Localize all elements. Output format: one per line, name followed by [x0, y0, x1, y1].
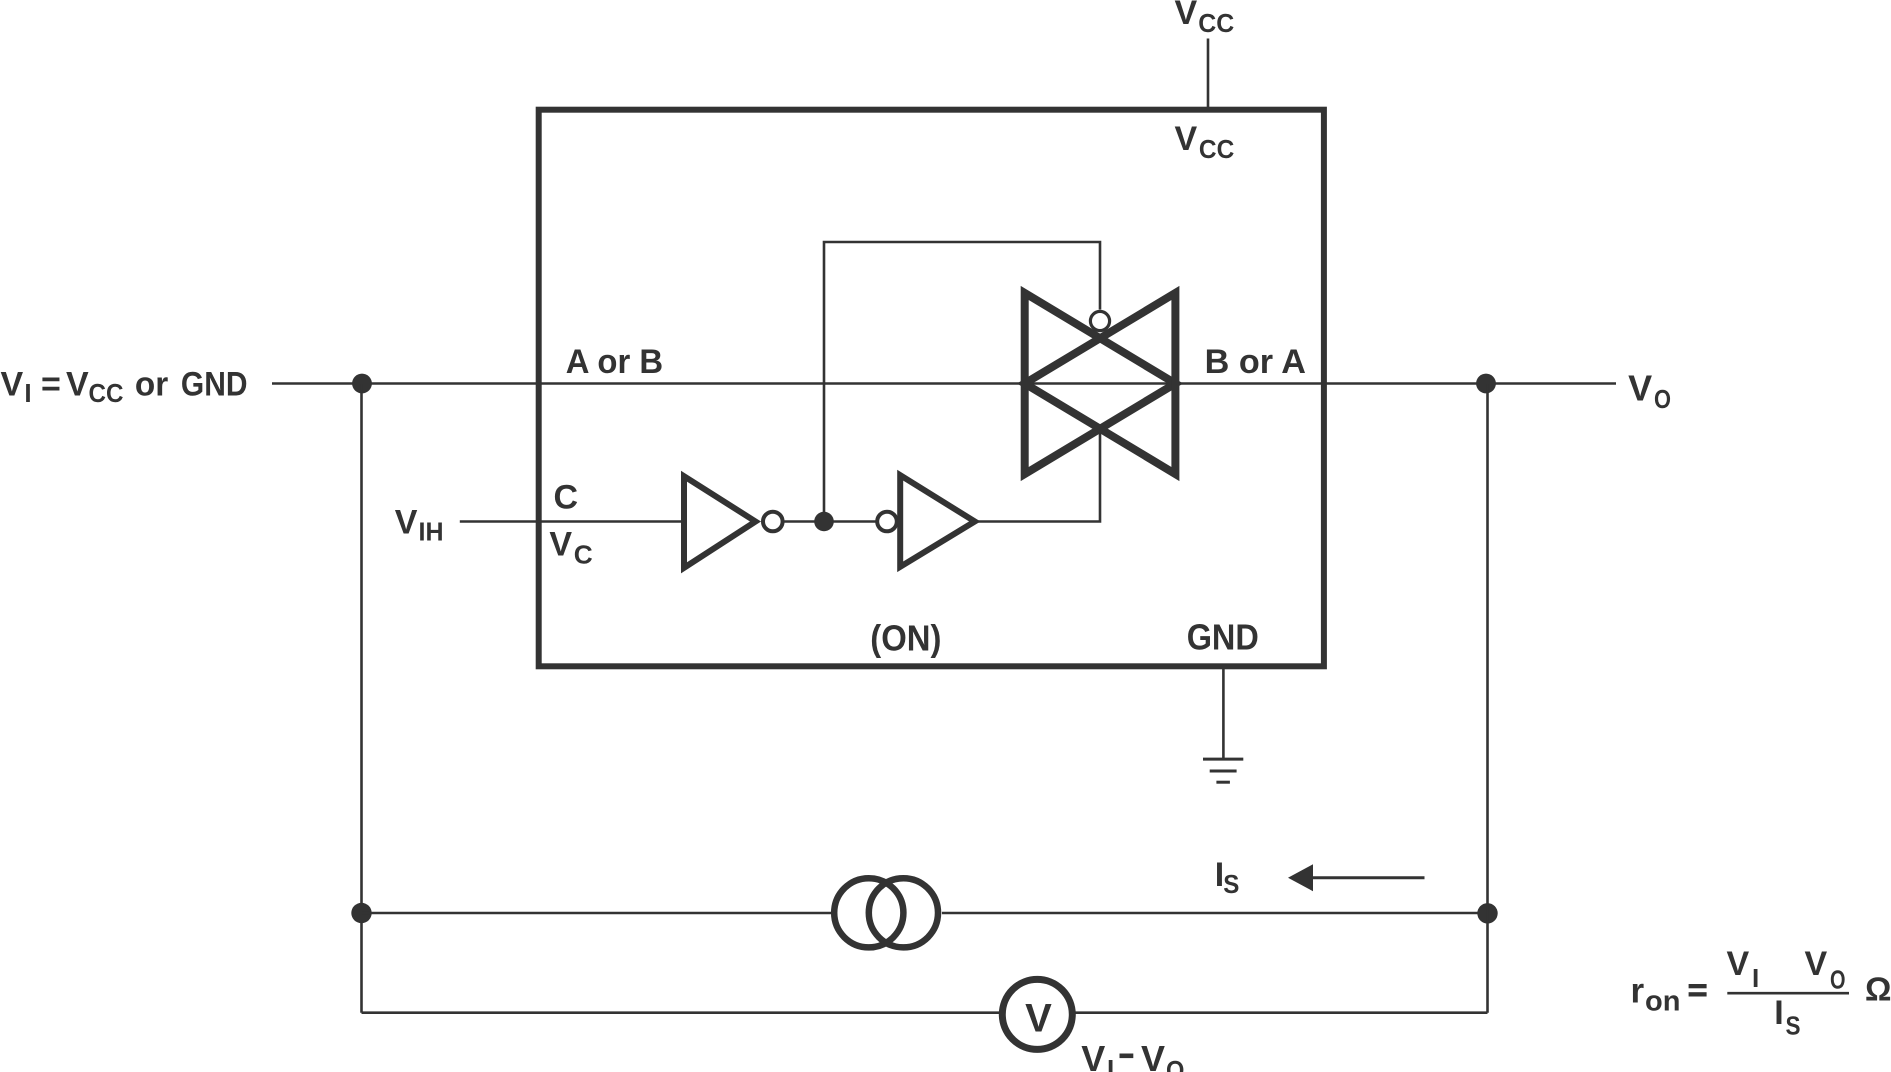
node: right lower junction — [1477, 903, 1497, 923]
inverter U2 — [684, 476, 756, 568]
label IS — [1215, 856, 1240, 899]
svg-text:V: V — [1175, 0, 1198, 32]
input net label VI = VCC or GND — [1, 366, 248, 408]
buffer U3 — [900, 475, 975, 567]
svg-text:A or B: A or B — [566, 343, 663, 381]
svg-text:O: O — [1654, 384, 1671, 414]
node: control inverter output — [814, 512, 834, 532]
svg-text:O: O — [1166, 1055, 1184, 1072]
svg-text:I: I — [1107, 1054, 1114, 1072]
svg-text:r: r — [1631, 972, 1645, 1011]
control feedback wire: node to gate top bubble — [824, 242, 1100, 522]
svg-text:CC: CC — [89, 378, 124, 408]
svg-text:S: S — [1786, 1010, 1801, 1040]
svg-text:GND: GND — [181, 366, 248, 404]
wire: left branch down — [360, 384, 363, 1013]
svg-text:O: O — [1830, 965, 1846, 995]
svg-text:V: V — [1141, 1038, 1165, 1072]
wire: GND pin to ground — [1222, 669, 1225, 758]
svg-text:I: I — [24, 378, 31, 408]
svg-text:I: I — [1752, 963, 1759, 993]
svg-text:V: V — [549, 526, 572, 564]
Vcc supply label — [1175, 0, 1235, 38]
svg-text:I: I — [1774, 994, 1783, 1032]
inverter output bubble — [763, 512, 783, 532]
svg-text:V: V — [1175, 120, 1198, 158]
wire: voltmeter to bottom right corner — [1075, 1011, 1487, 1014]
wire: right branch VO node down to bottom corner — [1486, 384, 1489, 1013]
svg-text:GND: GND — [1187, 617, 1259, 658]
svg-text:or: or — [135, 366, 168, 404]
svg-text:CC: CC — [1199, 134, 1235, 164]
wire: lower row left to current source — [362, 912, 832, 915]
svg-text:on: on — [1645, 985, 1680, 1017]
svg-text:B or A: B or A — [1205, 343, 1306, 381]
formula r_on = (VI VO) / IS ohms — [1631, 945, 1891, 1041]
transmission gate U1 — [1025, 293, 1176, 474]
voltmeter V1 — [1002, 979, 1072, 1049]
svg-text:CC: CC — [1198, 8, 1234, 38]
svg-text:=: = — [41, 366, 61, 404]
svg-text:V: V — [1, 366, 24, 404]
svg-text:C: C — [574, 540, 593, 570]
svg-text:V: V — [1628, 367, 1652, 408]
current source IS — [834, 878, 938, 947]
wire: VIH to inverter — [460, 520, 684, 523]
wire: buffer output to gate bottom — [975, 430, 1100, 522]
wire: current source to right node — [942, 912, 1488, 915]
svg-text:V: V — [395, 503, 418, 541]
svg-text:V: V — [1727, 945, 1750, 983]
wire: main signal VI to VO — [272, 382, 1616, 385]
svg-text:(ON): (ON) — [870, 618, 941, 659]
svg-text:IH: IH — [419, 516, 444, 546]
svg-text:V: V — [1081, 1038, 1105, 1072]
control input label VIH — [395, 503, 444, 546]
gate control bubble — [1090, 311, 1109, 330]
wire: Vcc lead — [1207, 39, 1210, 108]
svg-text:V: V — [66, 366, 89, 404]
node: left lower junction — [351, 903, 371, 923]
buffer input bubble — [877, 512, 897, 532]
svg-text:S: S — [1223, 869, 1239, 899]
node: output junction — [1476, 374, 1496, 394]
svg-text:V: V — [1805, 945, 1828, 983]
svg-text:V: V — [1025, 996, 1052, 1040]
ground — [1203, 759, 1243, 782]
wire: bottom row left — [362, 1011, 1000, 1014]
pin label VC — [549, 526, 593, 570]
current arrow IS — [1288, 864, 1313, 891]
svg-text:C: C — [554, 478, 579, 516]
svg-text:Ω: Ω — [1865, 971, 1891, 1008]
wire: inverter bubble to buffer bubble — [784, 520, 877, 523]
Vcc pin label inside box — [1175, 120, 1235, 164]
output net label VO — [1628, 367, 1671, 414]
DUT box — [539, 110, 1324, 667]
label VI minus VO — [1081, 1038, 1184, 1072]
node: input junction — [352, 374, 372, 394]
fraction bar — [1727, 992, 1849, 995]
